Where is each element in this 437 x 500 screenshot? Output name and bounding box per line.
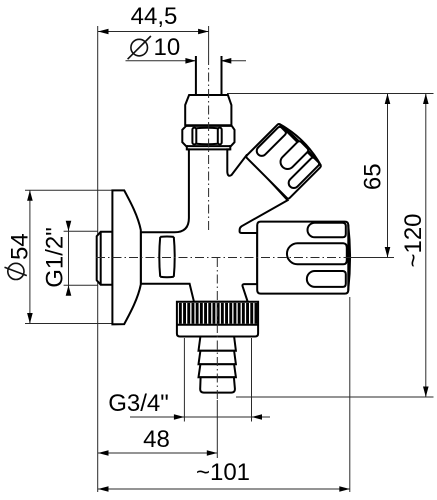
dimension ~120 <box>425 94 427 398</box>
handwheel knob (45 deg, upper right) <box>246 120 325 199</box>
dimension 44,5 <box>98 31 209 33</box>
svg-text:48: 48 <box>143 426 170 453</box>
svg-text:54: 54 <box>7 233 34 260</box>
wire: riser-axis extension line (top) <box>208 26 210 56</box>
riser pipe (d10) <box>196 56 222 96</box>
dimension diameter 54 <box>29 190 31 323</box>
valve body silhouette <box>141 95 288 302</box>
main handwheel (right) <box>257 222 350 294</box>
hose union nut (knurled) <box>177 302 258 337</box>
svg-text:G3/4": G3/4" <box>108 390 169 417</box>
hose barb tip ring <box>200 377 235 392</box>
svg-text:65: 65 <box>359 163 386 190</box>
dimension 48 <box>98 452 217 454</box>
compression hex facet divider right <box>218 128 222 145</box>
axis: horizontal centreline <box>96 257 352 259</box>
dimension G3/4" <box>130 416 270 418</box>
wall rosette bell <box>112 190 140 324</box>
wire: top extension line <box>227 93 434 95</box>
hose barb ring 1 <box>199 337 236 351</box>
dimension ~101 <box>98 488 350 490</box>
svg-text:10: 10 <box>154 34 181 61</box>
svg-text:G1/2": G1/2" <box>42 227 69 288</box>
axis: riser centreline <box>208 56 210 232</box>
svg-text:44,5: 44,5 <box>131 3 178 30</box>
wire: barb-axis extension line <box>216 400 218 458</box>
washer under hex <box>187 145 231 147</box>
body hex facet divider left (behind rosette) <box>158 237 161 277</box>
body hex facet divider right <box>173 237 176 277</box>
dimension G1/2" <box>68 222 70 293</box>
dimension 65 <box>387 94 389 258</box>
wire: outlet-axis extension line <box>352 257 394 259</box>
hose barb ring 2 <box>199 351 236 365</box>
svg-text:~101: ~101 <box>196 459 250 486</box>
wire: wall-face extension line <box>97 26 99 492</box>
hose barb ring 3 <box>199 364 236 377</box>
body hex chamfer lines <box>160 236 174 277</box>
wire: rosette bottom extension line <box>25 323 112 325</box>
wire: G1/2 top extension line <box>64 230 98 232</box>
dimension diameter 10 <box>126 60 196 62</box>
G1/2 wall thread stub <box>97 232 113 285</box>
wire: rosette top extension line <box>25 189 112 191</box>
wire: bottom extension line <box>236 396 434 398</box>
compression hex middle facet chamfer lines <box>196 128 218 145</box>
compression hex facet divider left <box>192 128 196 145</box>
axis: outlet centreline <box>216 258 218 400</box>
wire: G3/4 left extension line <box>183 338 185 422</box>
svg-text:~120: ~120 <box>400 213 427 267</box>
wire: handle-edge extension line <box>349 297 351 492</box>
compression hex nut top edge <box>186 125 232 127</box>
compression cap chamfer lines <box>185 124 231 126</box>
wire: G3/4 right extension line <box>251 338 253 422</box>
wire: G1/2 bottom extension line <box>64 284 98 286</box>
